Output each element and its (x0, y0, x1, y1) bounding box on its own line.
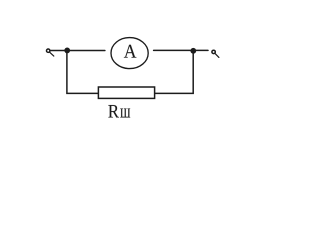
wire junction B to right terminal (193, 49, 208, 51)
terminal right (212, 50, 219, 57)
terminal left (47, 49, 54, 56)
resistor Rsh body (98, 87, 154, 98)
wire right vertical drop (155, 51, 194, 94)
wire left-terminal to junction A (50, 50, 67, 52)
value label sha of Rsh (120, 109, 130, 118)
ammeter label A (124, 45, 136, 58)
node junction A (64, 48, 70, 54)
node junction B (190, 48, 196, 54)
wire ammeter to junction B (154, 49, 194, 51)
value label R of Rsh (108, 105, 119, 118)
wire left vertical drop (67, 51, 99, 94)
wire junction A to ammeter (67, 50, 105, 52)
ammeter PA1 circle (111, 38, 148, 69)
